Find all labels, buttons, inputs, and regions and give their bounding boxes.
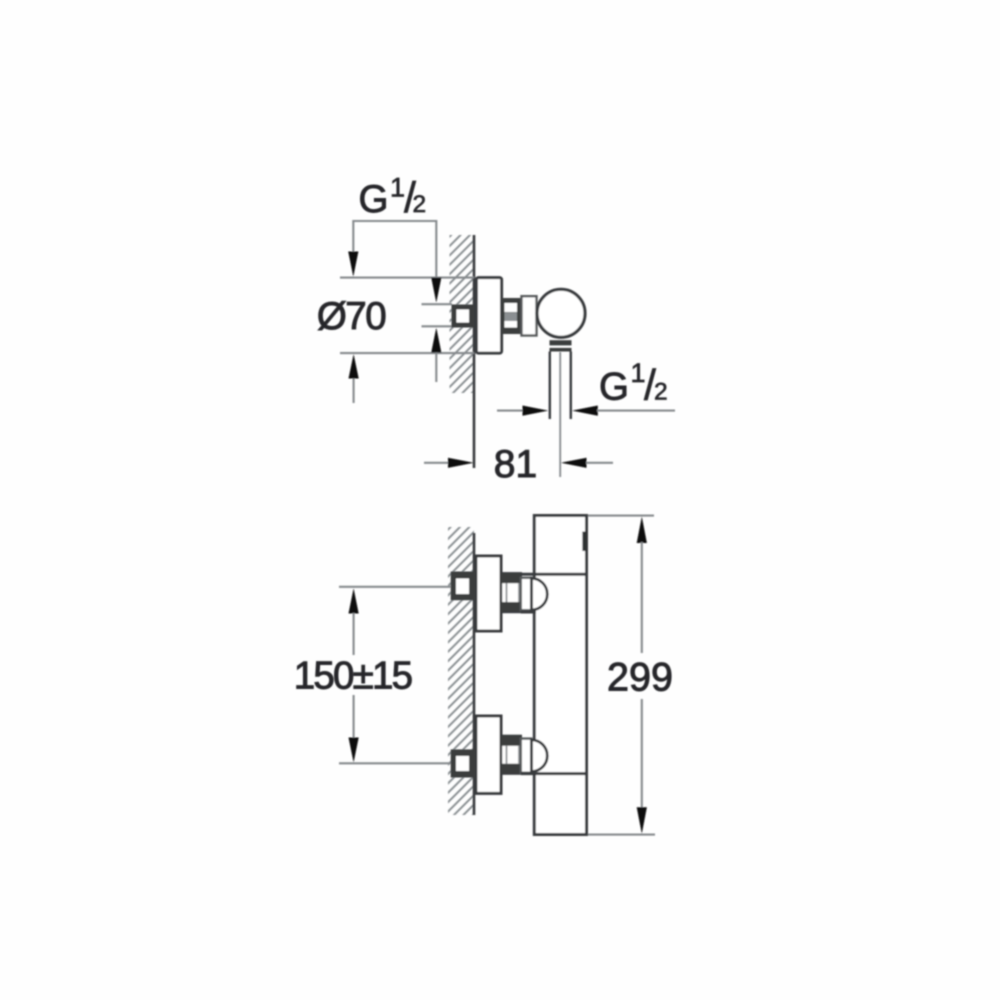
svg-text:G: G: [599, 366, 629, 409]
svg-text:150±15: 150±15: [294, 655, 412, 698]
G1/2 lower dim line right: [597, 410, 675, 412]
81 dim line left: [424, 462, 449, 464]
G1/2 lower left arrow: [523, 406, 549, 416]
dia70 top extension line: [340, 277, 474, 279]
body step line top: [521, 573, 587, 576]
union nut (top view): [502, 298, 522, 334]
G1/2 lower right arrow: [572, 406, 598, 416]
arrow up to dia70 bottom line: [349, 354, 359, 379]
wall line (front view): [473, 533, 476, 815]
arrow down to pipe top edge: [431, 278, 441, 303]
81 left arrow: [448, 458, 474, 468]
81 right arrow: [561, 458, 587, 468]
G1/2 lower dim line left: [497, 410, 524, 412]
top union cone: [521, 578, 532, 610]
299 bottom extension line: [588, 834, 655, 836]
bottom union cone: [521, 739, 532, 773]
arrow up to pipe bottom edge: [431, 328, 441, 353]
svg-text:299: 299: [607, 656, 673, 700]
concealed pipe fitting (top view): [452, 305, 475, 328]
150 dim upper arrow (up): [349, 588, 359, 613]
body: [534, 516, 586, 835]
svg-text:81: 81: [494, 443, 537, 486]
bottom union nut (front view): [501, 736, 521, 774]
wall face line (top view): [473, 235, 476, 468]
body right edge tick: [582, 532, 587, 552]
escutcheon (side view): [476, 278, 501, 354]
tail line below pipe arrow: [435, 353, 437, 382]
299 dim lower arrow (down): [637, 807, 647, 834]
label bracket: [353, 221, 436, 279]
union cone (top view): [522, 296, 537, 335]
top dome: [532, 578, 548, 610]
short line under top dome: [521, 611, 536, 614]
150 top extension line: [339, 586, 451, 588]
bottom dome: [532, 740, 548, 772]
outlet collar below circle: [550, 340, 572, 345]
top concealed fitting: [451, 572, 475, 601]
bottom concealed fitting: [451, 749, 475, 777]
svg-text:2: 2: [654, 379, 668, 406]
299 dim upper arrow (up): [637, 517, 647, 544]
pipe top edge extension line: [422, 303, 453, 305]
299 dim line upper: [641, 542, 643, 653]
hose left line: [549, 352, 551, 420]
hose right line: [570, 352, 572, 420]
dia70 bottom extension line: [340, 352, 474, 354]
81 dim line right: [586, 462, 613, 464]
top escutcheon (front view): [476, 556, 501, 631]
299 top extension line: [588, 515, 654, 517]
thermostat body circle (top view): [537, 289, 585, 337]
wall hatch (top view): [450, 235, 475, 393]
svg-text:G: G: [359, 178, 389, 221]
299 dim line lower: [641, 699, 643, 808]
svg-text:2: 2: [413, 191, 427, 218]
bottom escutcheon (front view): [476, 716, 501, 793]
150 bottom extension line: [339, 762, 451, 764]
150 dim line upper: [353, 613, 355, 655]
top union nut (front view): [501, 573, 521, 612]
body step line bottom: [521, 772, 587, 775]
hose centre line: [559, 352, 561, 477]
wall hatch (front view): [448, 527, 474, 815]
tail line below dia70 arrow: [353, 379, 355, 404]
svg-text:Ø70: Ø70: [317, 295, 385, 338]
svg-text:1: 1: [390, 173, 405, 203]
arrow down to dia70 top line: [348, 252, 358, 277]
150 dim line lower: [353, 695, 355, 738]
pipe bottom edge extension line: [422, 325, 453, 327]
150 dim lower arrow (down): [349, 738, 359, 763]
